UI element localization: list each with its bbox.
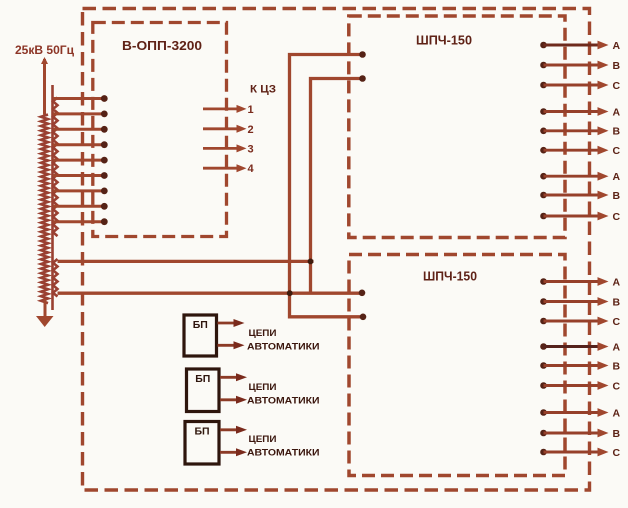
svg-text:2: 2 — [248, 124, 254, 136]
svg-text:ЦЕПИ: ЦЕПИ — [249, 382, 277, 393]
svg-text:В: В — [613, 296, 621, 308]
svg-text:В: В — [613, 428, 621, 440]
svg-text:А: А — [613, 407, 621, 419]
svg-text:С: С — [613, 316, 621, 328]
svg-text:С: С — [613, 380, 621, 392]
svg-text:В: В — [613, 360, 621, 372]
svg-text:А: А — [613, 106, 621, 118]
svg-text:АВТОМАТИКИ: АВТОМАТИКИ — [247, 342, 320, 353]
svg-text:БП: БП — [193, 319, 208, 331]
svg-text:С: С — [613, 80, 621, 92]
svg-text:1: 1 — [248, 104, 254, 116]
svg-text:3: 3 — [248, 143, 254, 155]
svg-text:В: В — [613, 126, 621, 138]
svg-text:ШПЧ-150: ШПЧ-150 — [423, 269, 477, 284]
svg-text:В: В — [613, 60, 621, 72]
svg-text:БП: БП — [194, 426, 209, 438]
svg-text:ЦЕПИ: ЦЕПИ — [249, 434, 277, 445]
svg-text:А: А — [613, 40, 621, 52]
svg-text:А: А — [613, 341, 621, 353]
svg-text:БП: БП — [195, 373, 210, 385]
svg-text:В: В — [613, 190, 621, 202]
svg-text:ЦЕПИ: ЦЕПИ — [249, 328, 277, 339]
svg-text:С: С — [613, 447, 621, 459]
svg-text:А: А — [613, 276, 621, 288]
svg-text:АВТОМАТИКИ: АВТОМАТИКИ — [247, 395, 320, 406]
svg-text:С: С — [613, 211, 621, 223]
svg-text:ШПЧ-150: ШПЧ-150 — [416, 33, 472, 48]
svg-text:К ЦЗ: К ЦЗ — [250, 84, 276, 96]
svg-text:25кВ 50Гц: 25кВ 50Гц — [15, 43, 75, 57]
svg-text:А: А — [613, 171, 621, 183]
svg-text:АВТОМАТИКИ: АВТОМАТИКИ — [247, 447, 320, 458]
svg-text:4: 4 — [248, 163, 255, 175]
svg-text:С: С — [613, 145, 621, 157]
svg-text:В-ОПП-3200: В-ОПП-3200 — [122, 38, 202, 53]
